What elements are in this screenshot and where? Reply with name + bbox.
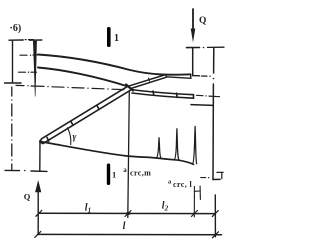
dash-dot foot continuation — [202, 76, 211, 77]
bottom left cap left — [5, 169, 20, 171]
main leaf top edge — [38, 55, 191, 75]
arrowheads at divider — [124, 212, 133, 215]
dimension line l1 l2 — [39, 212, 215, 214]
reaction Q arrow up — [35, 180, 41, 235]
svg-text:l1: l1 — [85, 203, 91, 215]
load line vertical — [192, 48, 194, 76]
section marker 1 bottom bold bar — [107, 164, 110, 186]
load line foot horizontal — [193, 75, 200, 77]
vertical from junction to dimension line — [128, 91, 130, 218]
crack 1 — [156, 137, 161, 158]
junction blob — [126, 85, 133, 91]
svg-text:a: a — [123, 166, 127, 174]
bottom left cap right — [31, 170, 47, 172]
svg-text:Q: Q — [199, 16, 206, 26]
tick left end — [36, 210, 42, 216]
dash-dot stub between top caps — [25, 39, 33, 41]
section marker 1 top bold bar — [107, 27, 111, 47]
centerline dash-dot from left cap to junction — [16, 85, 124, 90]
svg-text:γ: γ — [73, 133, 77, 143]
tick at crack extension — [191, 211, 197, 217]
dash-dot datum at y177 — [201, 177, 210, 178]
center bolt needle — [33, 41, 36, 97]
dash-dot right of band — [197, 95, 220, 96]
svg-text:a: a — [168, 179, 172, 186]
svg-text:1: 1 — [112, 170, 116, 180]
center bolt needle cap — [30, 39, 42, 41]
elbow mark right — [217, 172, 223, 178]
tick right end l — [212, 232, 218, 238]
svg-text:l: l — [123, 221, 126, 232]
lower edge line y105 — [191, 104, 213, 107]
load Q arrow top — [191, 9, 196, 43]
crack line bottom edge — [40, 142, 194, 165]
extension line crack to dim — [193, 196, 195, 217]
svg-text:1: 1 — [114, 33, 119, 44]
load line cap under arrow — [187, 47, 200, 49]
tick at right vertical — [212, 211, 218, 217]
crack 2 — [174, 128, 179, 160]
crack depth mini dimension caps — [194, 186, 200, 200]
dash-dot stub to beam bottom edge — [19, 72, 37, 73]
tick middle divider — [125, 211, 131, 217]
gamma angle arc — [68, 128, 71, 145]
crack 3 — [193, 126, 197, 164]
svg-text:crc, l: crc, l — [173, 180, 193, 189]
svg-text:crc,m: crc,m — [130, 169, 151, 178]
main leaf right end cap — [190, 74, 192, 78]
dash-dot of cap — [203, 47, 224, 49]
dimension line l total — [38, 233, 222, 235]
main leaf bottom edge right part — [167, 77, 191, 79]
right extension vertical dash-dot — [213, 48, 220, 180]
right lower vertical — [214, 195, 216, 237]
main leaf bottom edge — [38, 68, 128, 87]
dash-dot stub to beam top edge — [20, 55, 37, 56]
dot between caps — [24, 170, 26, 172]
svg-text:Q: Q — [24, 191, 31, 201]
dimension line left vertical with caps — [5, 40, 24, 83]
diagonal leaf band — [40, 86, 131, 144]
vertical from band tip to cap — [39, 141, 41, 172]
lower leaf band right — [131, 90, 194, 99]
svg-text:·6): ·6) — [10, 23, 22, 34]
svg-text:l2: l2 — [162, 200, 169, 212]
left centerline dash-dot vertical — [11, 87, 12, 170]
second leaf upper strip — [130, 75, 167, 89]
tick left end l — [35, 231, 41, 237]
